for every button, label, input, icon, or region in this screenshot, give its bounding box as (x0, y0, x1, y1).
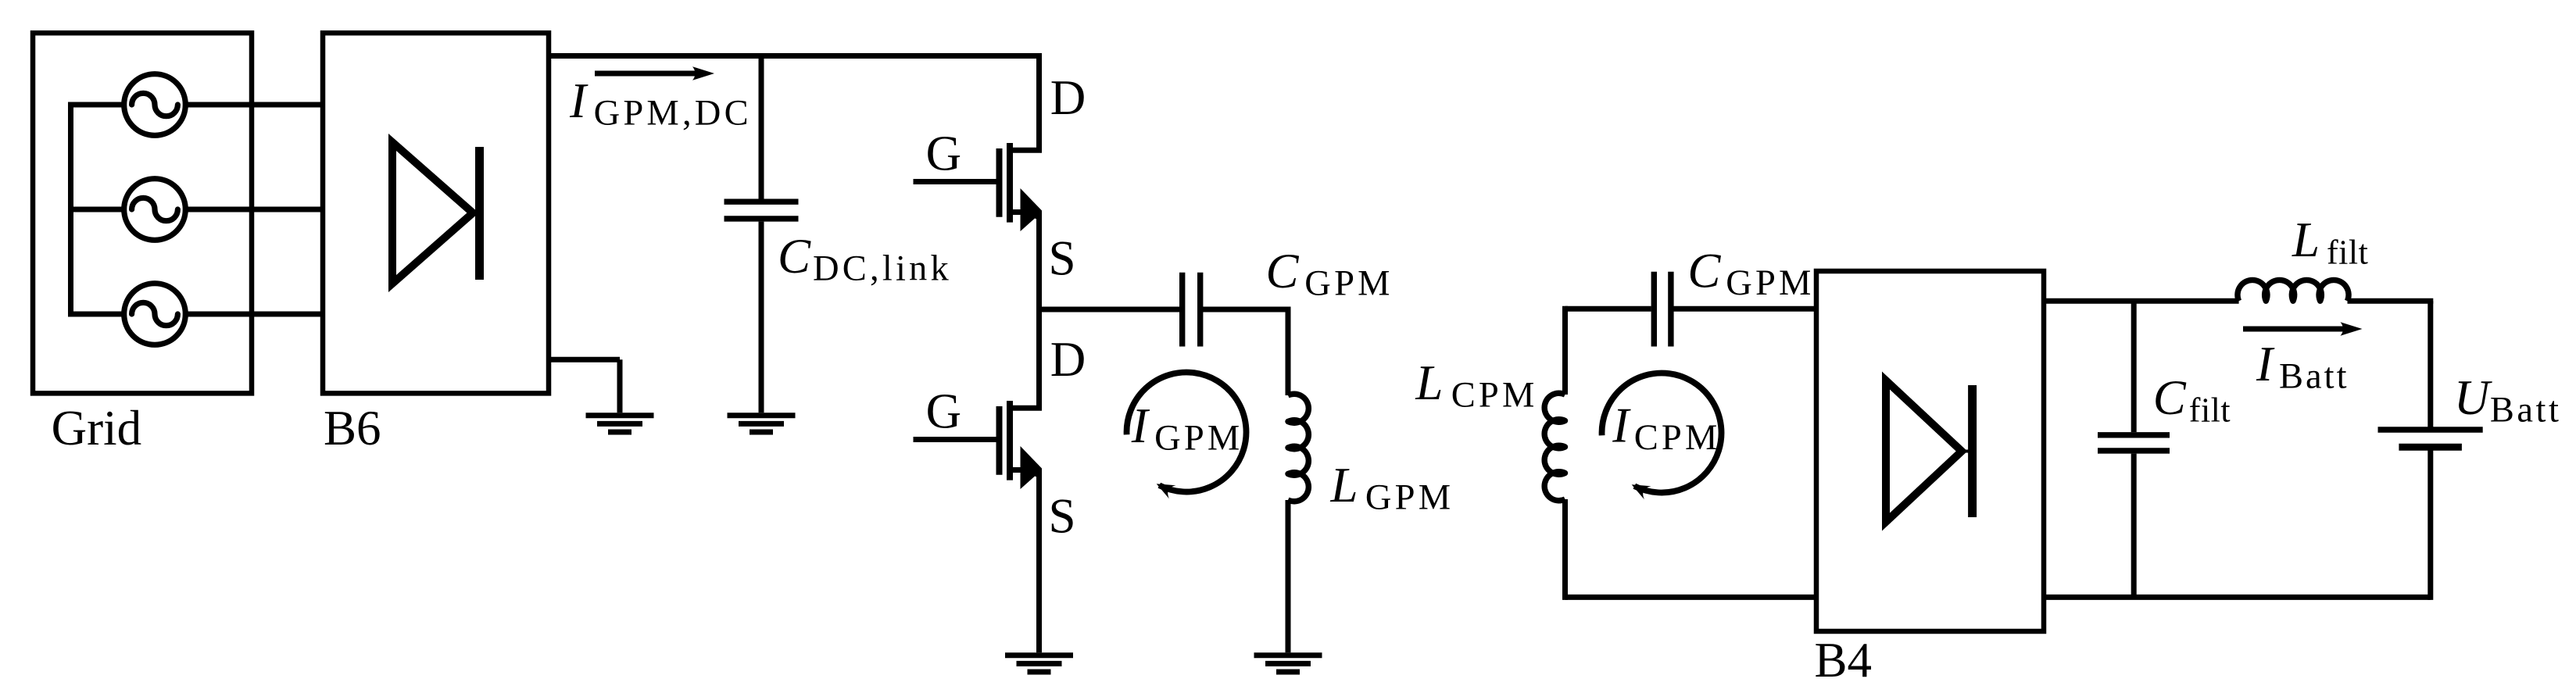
svg-text:I: I (569, 73, 589, 128)
svg-text:GPM: GPM (1726, 263, 1814, 303)
svg-text:C: C (778, 229, 811, 284)
svg-text:B4: B4 (1815, 633, 1873, 688)
svg-text:CPM: CPM (1451, 376, 1538, 416)
svg-text:I: I (1612, 398, 1631, 453)
svg-text:G: G (926, 384, 962, 439)
svg-text:L: L (2292, 213, 2320, 267)
svg-text:DC,link: DC,link (813, 249, 952, 289)
svg-text:D: D (1050, 70, 1086, 125)
svg-text:I: I (1131, 398, 1150, 453)
svg-text:G: G (926, 127, 962, 181)
svg-text:S: S (1049, 489, 1076, 544)
svg-text:L: L (1330, 458, 1358, 513)
svg-text:Batt: Batt (2279, 357, 2349, 397)
svg-text:S: S (1049, 231, 1076, 286)
svg-text:U: U (2454, 370, 2492, 425)
svg-text:filt: filt (2327, 234, 2368, 272)
svg-text:Grid: Grid (52, 401, 141, 455)
svg-text:Batt: Batt (2490, 391, 2562, 430)
svg-text:B6: B6 (324, 401, 381, 455)
svg-text:GPM: GPM (1154, 419, 1243, 459)
svg-text:CPM: CPM (1634, 418, 1721, 458)
svg-text:GPM: GPM (1304, 263, 1393, 303)
svg-text:filt: filt (2189, 391, 2231, 430)
svg-text:C: C (1687, 244, 1721, 298)
svg-text:GPM,DC: GPM,DC (594, 94, 752, 134)
svg-text:D: D (1050, 332, 1086, 387)
svg-text:L: L (1415, 355, 1443, 410)
svg-text:C: C (2153, 370, 2187, 425)
svg-text:C: C (1266, 244, 1300, 298)
svg-text:GPM: GPM (1365, 477, 1454, 517)
svg-text:I: I (2256, 337, 2275, 391)
